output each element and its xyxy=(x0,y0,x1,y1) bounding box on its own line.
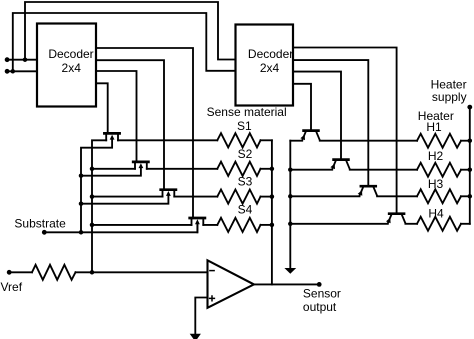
transistor Q5 (heater-row transistor) xyxy=(300,131,319,141)
node: terminal dot input B xyxy=(5,69,10,74)
transistor Q4 (sense-row MOSFET switch) xyxy=(190,218,205,232)
wire: Q3 source to source bus xyxy=(92,196,163,198)
wire: U1 output Y0 to gate of Q1 xyxy=(96,83,108,133)
resistor S4 (sense material) with drain wire of Q4 xyxy=(203,218,272,232)
wire: op-amp non-inverting input to ground arrow xyxy=(195,298,207,335)
junction: Q2 bulk / bulk bus xyxy=(79,173,84,178)
svg-text:Substrate: Substrate xyxy=(14,217,66,231)
wire: U2 output Y3 to base of Q8 xyxy=(293,48,397,214)
ground arrow (heater common) xyxy=(284,268,296,274)
wire: U2 output Y1 to base of Q6 xyxy=(293,72,341,160)
junction: S4 row / source bus xyxy=(90,223,95,228)
svg-text:2x4: 2x4 xyxy=(62,61,82,75)
resistor H3 (heater) with collector wire of Q7 xyxy=(377,189,470,203)
resistor S1 (sense material) with drain wire of Q1 xyxy=(118,133,272,147)
ground arrow (op-amp + input) xyxy=(190,334,201,339)
junction: S3 row / source bus xyxy=(90,194,95,199)
junction: S2 row / source bus xyxy=(90,167,95,172)
wire: decoder U1 input B (from terminal to U1) xyxy=(7,70,37,72)
junction: input A riser xyxy=(23,57,28,62)
junction: Q6 emitter / ground bus xyxy=(288,167,293,172)
node: terminal dot input A xyxy=(5,57,10,62)
svg-text:2x4: 2x4 xyxy=(260,61,280,75)
wire: Q5 emitter to ground bus xyxy=(290,140,302,142)
wire: Substrate line to bulk of Q4 xyxy=(44,223,197,232)
wire: address line A over-route from decoder U1 input to decoder U2 input xyxy=(25,2,236,60)
node: Sensor output terminal dot xyxy=(317,282,322,287)
svg-text:Vref: Vref xyxy=(1,280,23,294)
resistor H4 (heater) with collector wire of Q8 xyxy=(405,217,469,231)
svg-text:S4: S4 xyxy=(238,203,253,217)
transistor Q3 (sense-row MOSFET switch) xyxy=(81,190,176,204)
decoder U2 (Decoder 2x4) xyxy=(236,25,294,106)
resistor S2 (sense material) with drain wire of Q2 xyxy=(147,162,272,176)
svg-text:Sense material: Sense material xyxy=(207,105,287,119)
wire: source bus of Q1-Q4 down to Vref node xyxy=(92,140,106,272)
wire: U1 output Y1 to gate of Q2 xyxy=(96,71,137,162)
svg-text:Sensor: Sensor xyxy=(303,287,341,301)
wire: Q6 emitter to ground bus xyxy=(290,169,332,171)
node: Vref terminal dot xyxy=(7,270,12,275)
junction: H2 / heater supply bus xyxy=(468,167,473,172)
decoder U1 (Decoder 2x4) xyxy=(37,24,96,107)
wire: U1 output Y2 to gate of Q3 xyxy=(96,60,164,189)
op-amp U3 non-inverting pin label (+) xyxy=(210,296,215,301)
junction: input B riser xyxy=(11,69,16,74)
junction: Q3 bulk / bulk bus xyxy=(79,201,84,206)
resistor Rref with Vref input wire to op-amp inverting input xyxy=(9,265,207,280)
junction: source bus / Vref line xyxy=(90,270,95,275)
svg-text:S2: S2 xyxy=(238,147,253,161)
transistor Q6 (heater-row transistor) xyxy=(330,160,349,170)
junction: bulk bus / substrate line xyxy=(79,230,84,235)
wire: U1 output Y3 to gate of Q4 xyxy=(96,48,193,218)
svg-text:Decoder: Decoder xyxy=(48,47,93,61)
op-amp U3 xyxy=(208,260,254,308)
junction: Q7 emitter / ground bus xyxy=(288,194,293,199)
resistor S3 (sense material) with drain wire of Q3 xyxy=(174,190,272,204)
wire: address line B over-route from decoder U1 input to decoder U2 input xyxy=(13,13,236,71)
svg-text:H2: H2 xyxy=(428,149,444,163)
wire: Q8 emitter to ground bus xyxy=(290,223,388,225)
junction: Q8 emitter / ground bus xyxy=(288,222,293,227)
svg-text:Decoder: Decoder xyxy=(248,47,293,61)
junction: H3 / heater supply bus xyxy=(468,194,473,199)
wire: Q4 source to source bus xyxy=(92,224,192,226)
wire: sense-resistor bus down to op-amp output (feedback node) xyxy=(271,140,273,284)
node: Heater supply terminal dot xyxy=(467,105,472,110)
wire: U2 output Y2 to base of Q7 xyxy=(293,60,368,186)
resistor H2 (heater) with collector wire of Q6 xyxy=(350,163,470,177)
svg-text:output: output xyxy=(303,300,337,314)
wire: op-amp output to Sensor output terminal xyxy=(254,283,319,285)
svg-text:S1: S1 xyxy=(237,119,252,133)
svg-text:supply: supply xyxy=(432,90,467,104)
resistor H1 (heater) with collector wire of Q5 xyxy=(320,134,470,148)
junction: S4 / feedback bus xyxy=(270,223,275,228)
node: Substrate terminal dot xyxy=(42,230,47,235)
wire: Q7 emitter to ground bus xyxy=(290,195,359,197)
transistor Q7 (heater-row transistor) xyxy=(358,186,377,196)
svg-text:H4: H4 xyxy=(428,206,444,220)
junction: H1 / heater supply bus xyxy=(468,138,473,143)
junction: S3 / feedback bus xyxy=(270,194,275,199)
wire: Q2 source to source bus xyxy=(92,168,135,170)
transistor Q2 (sense-row MOSFET switch) xyxy=(81,162,148,176)
transistor Q8 (heater-row transistor) xyxy=(386,214,405,224)
wire: decoder U1 input A (from terminal to U1) xyxy=(7,59,37,61)
op-amp U3 inverting pin label (-) xyxy=(210,270,214,272)
junction: S2 / feedback bus xyxy=(270,167,275,172)
svg-text:S3: S3 xyxy=(238,175,253,189)
wire: U2 output Y0 to base of Q5 xyxy=(293,84,311,130)
transistor Q1 (sense-row MOSFET switch) xyxy=(81,133,120,232)
svg-text:H1: H1 xyxy=(426,120,442,134)
svg-text:H3: H3 xyxy=(428,177,444,191)
wire: Heater supply bus xyxy=(469,107,471,224)
wire: heater-side common bus down to ground arrow xyxy=(289,141,291,269)
